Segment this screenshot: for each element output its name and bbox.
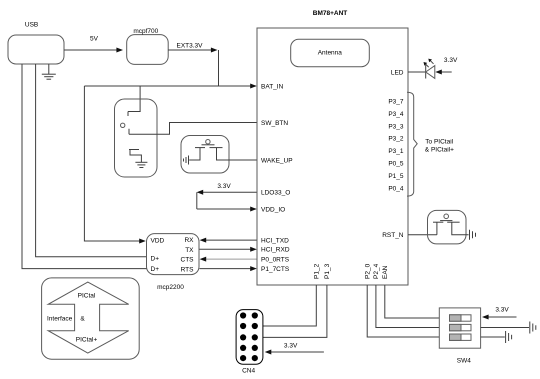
svg-text:VDD: VDD	[151, 238, 165, 245]
svg-text:To PICtail: To PICtail	[425, 139, 453, 146]
svg-text:HCI_TXD: HCI_TXD	[261, 237, 289, 244]
svg-text:RTS: RTS	[181, 266, 195, 273]
svg-text:LDO33_O: LDO33_O	[261, 190, 290, 197]
svg-text:BM78+ANT: BM78+ANT	[313, 10, 348, 17]
svg-text:P0_4: P0_4	[388, 186, 404, 193]
svg-text:P3_4: P3_4	[388, 111, 404, 118]
svg-text:P0_5: P0_5	[388, 161, 404, 168]
svg-text:3.3V: 3.3V	[495, 307, 509, 314]
svg-text:P1_3: P1_3	[324, 263, 331, 279]
svg-text:P2_0: P2_0	[365, 263, 372, 279]
svg-text:P1_5: P1_5	[388, 173, 404, 180]
svg-text:P1_2: P1_2	[314, 263, 321, 279]
svg-text:USB: USB	[25, 22, 38, 29]
svg-text:P3_7: P3_7	[388, 98, 404, 105]
svg-text:P1_7CTS: P1_7CTS	[261, 266, 290, 273]
svg-text:P2_4: P2_4	[373, 263, 380, 279]
svg-text:EXT3.3V: EXT3.3V	[176, 42, 203, 49]
svg-text:SW4: SW4	[457, 358, 471, 365]
svg-text:VDD_IO: VDD_IO	[261, 206, 285, 213]
svg-text:RST_N: RST_N	[382, 232, 404, 239]
svg-text:Antenna: Antenna	[318, 50, 343, 57]
svg-text:SW_BTN: SW_BTN	[261, 120, 288, 127]
svg-text:P3_2: P3_2	[388, 136, 404, 143]
svg-text:P0_0RTS: P0_0RTS	[261, 256, 290, 263]
svg-text:EAN: EAN	[382, 265, 389, 279]
svg-text:HCI_RXD: HCI_RXD	[261, 247, 290, 254]
svg-text:LED: LED	[391, 69, 404, 76]
svg-text:mcpf700: mcpf700	[133, 28, 158, 35]
svg-text:5V: 5V	[90, 36, 99, 43]
svg-text:Interface: Interface	[47, 316, 73, 323]
svg-text:WAKE_UP: WAKE_UP	[261, 157, 293, 164]
svg-text:PICtal: PICtal	[78, 293, 96, 300]
svg-text:BAT_IN: BAT_IN	[261, 83, 284, 90]
svg-text:TX: TX	[185, 247, 194, 254]
svg-text:3.3V: 3.3V	[284, 342, 298, 349]
svg-text:D+: D+	[151, 266, 160, 273]
svg-text:& PICtail+: & PICtail+	[425, 147, 454, 154]
svg-text:PICtal+: PICtal+	[76, 337, 98, 344]
svg-text:RX: RX	[184, 237, 194, 244]
svg-text:CN4: CN4	[242, 368, 255, 375]
svg-text:P3_1: P3_1	[388, 148, 404, 155]
svg-text:3.3V: 3.3V	[444, 57, 458, 64]
svg-text:D+: D+	[151, 256, 160, 263]
svg-text:mcp2200: mcp2200	[157, 284, 184, 291]
svg-text:3.3V: 3.3V	[217, 183, 231, 190]
svg-text:CTS: CTS	[181, 257, 195, 264]
svg-text:&: &	[80, 316, 85, 323]
svg-text:P3_3: P3_3	[388, 123, 404, 130]
